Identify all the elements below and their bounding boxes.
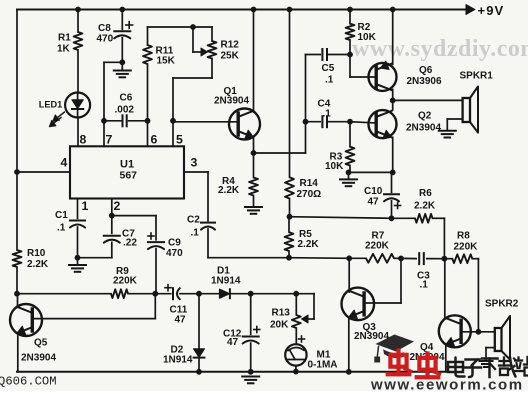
svg-text:7: 7 [106, 133, 113, 147]
svg-text:47: 47 [227, 337, 239, 348]
svg-text:LED1: LED1 [39, 100, 63, 110]
svg-text:2N3904: 2N3904 [406, 123, 441, 134]
svg-text:2.2K: 2.2K [218, 185, 240, 196]
svg-text:.1: .1 [420, 279, 429, 290]
svg-text:C8: C8 [98, 23, 111, 34]
svg-text:3: 3 [191, 156, 198, 170]
svg-text:Q6: Q6 [419, 65, 433, 76]
svg-text:10K: 10K [325, 161, 344, 172]
svg-text:5: 5 [176, 133, 183, 147]
svg-text:1: 1 [82, 199, 89, 213]
svg-text:2N3906: 2N3906 [407, 76, 442, 87]
svg-text:Q606.COM: Q606.COM [0, 374, 57, 388]
svg-text:1N914: 1N914 [163, 355, 193, 366]
svg-text:+9V: +9V [478, 3, 505, 18]
svg-text:10K: 10K [358, 32, 377, 43]
svg-text:2.2K: 2.2K [27, 259, 49, 270]
svg-text:2.2K: 2.2K [298, 239, 320, 250]
svg-text:1K: 1K [57, 44, 71, 55]
svg-text:.002: .002 [115, 104, 135, 115]
svg-text:2N3904: 2N3904 [21, 353, 56, 364]
svg-text:47: 47 [175, 315, 187, 326]
svg-text:.1: .1 [57, 223, 66, 234]
svg-text:SPKR1: SPKR1 [460, 71, 494, 82]
svg-text:2N3904: 2N3904 [214, 95, 249, 106]
svg-text:6: 6 [151, 133, 158, 147]
svg-text:470: 470 [166, 248, 183, 259]
svg-text:270Ω: 270Ω [297, 189, 322, 200]
svg-text:25K: 25K [221, 50, 240, 61]
svg-text:20K: 20K [270, 320, 289, 331]
svg-text:.1: .1 [191, 228, 200, 239]
svg-text:C1: C1 [55, 210, 68, 221]
svg-text:R14: R14 [300, 178, 319, 189]
svg-text:567: 567 [120, 169, 138, 181]
svg-text:C6: C6 [120, 93, 133, 104]
svg-text:R13: R13 [272, 307, 291, 318]
svg-text:8: 8 [80, 133, 87, 147]
svg-text:R6: R6 [419, 188, 432, 199]
svg-text:www.sydzdiy.com: www.sydzdiy.com [352, 36, 528, 62]
svg-text:.1: .1 [325, 74, 334, 85]
svg-text:1N914: 1N914 [211, 276, 241, 287]
svg-text:Q2: Q2 [418, 111, 432, 122]
svg-text:C9: C9 [168, 238, 181, 249]
svg-text:Q5: Q5 [34, 338, 48, 349]
svg-text:2.2K: 2.2K [414, 201, 436, 212]
svg-text:4: 4 [61, 156, 68, 170]
svg-text:R10: R10 [27, 248, 46, 259]
svg-text:C2: C2 [187, 214, 200, 225]
svg-text:220K: 220K [113, 276, 138, 287]
svg-text:R12: R12 [221, 40, 240, 51]
svg-text:.22: .22 [123, 238, 137, 249]
svg-text:47: 47 [368, 197, 380, 208]
svg-text:220K: 220K [365, 241, 390, 252]
svg-text:R8: R8 [457, 231, 470, 242]
svg-text:470: 470 [97, 34, 114, 45]
svg-text:www.eeworm.com: www.eeworm.com [370, 377, 524, 392]
svg-text:.1: .1 [323, 109, 332, 120]
svg-text:C5: C5 [322, 63, 335, 74]
svg-text:15K: 15K [157, 56, 176, 67]
svg-text:R1: R1 [58, 33, 71, 44]
svg-text:2: 2 [114, 199, 121, 213]
svg-text:C10: C10 [364, 186, 383, 197]
svg-text:SPKR2: SPKR2 [485, 298, 519, 309]
svg-text:0-1MA: 0-1MA [308, 360, 338, 371]
svg-text:220K: 220K [454, 242, 479, 253]
